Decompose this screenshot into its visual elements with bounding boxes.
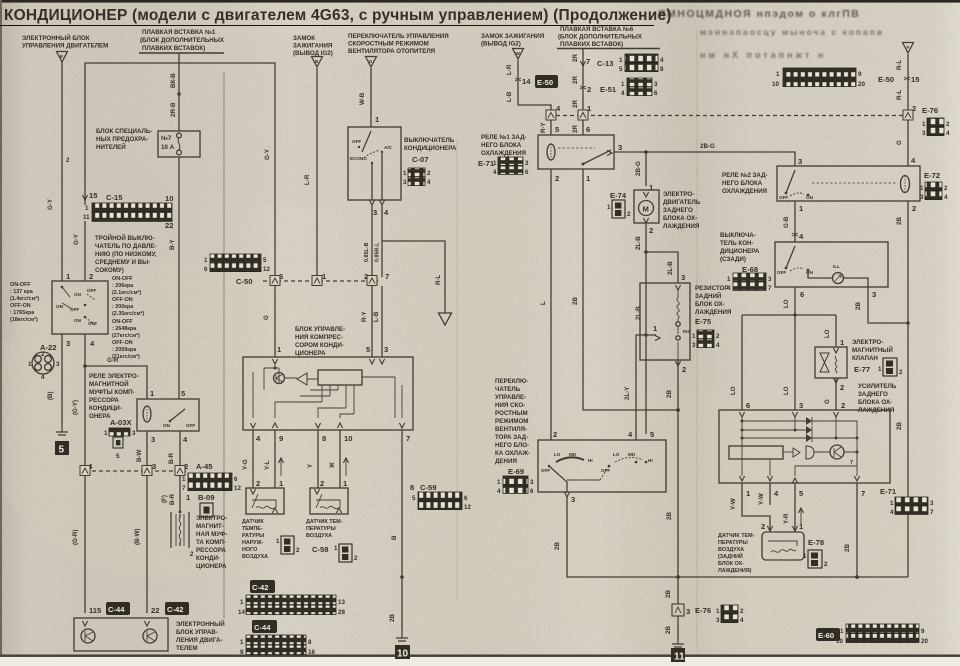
svg-text:10: 10 — [344, 434, 352, 443]
svg-text:2В: 2В — [855, 302, 862, 310]
dashed harness line through pins 4 3 2 — [80, 462, 188, 476]
svg-text:3: 3 — [654, 81, 658, 88]
label: ПЛАВКАЯ ВСТАВКА №1 — [139, 29, 225, 53]
svg-text:ТЕЛЕМ: ТЕЛЕМ — [176, 645, 198, 652]
svg-text:УПРАВЛЕНИЯ ДВИГАТЕЛЕМ: УПРАВЛЕНИЯ ДВИГАТЕЛЕМ — [22, 43, 108, 50]
svg-text:КОНДИЦИ-: КОНДИЦИ- — [89, 405, 122, 412]
svg-text:OFF: OFF — [541, 468, 550, 473]
svg-text:R-L: R-L — [896, 59, 903, 70]
wire B-R (F) below dashed to clutch — [161, 476, 180, 512]
svg-text:НИТЕЛЕЙ: НИТЕЛЕЙ — [96, 143, 126, 151]
svg-text:мэннэпаосцу мыноча с копапв: мэннэпаосцу мыноча с копапв — [700, 27, 884, 37]
svg-text:8: 8 — [322, 434, 326, 443]
svg-text:OFF-ON: OFF-ON — [112, 297, 133, 303]
wire L-R from triangle B to dashed junction pin 1 — [304, 68, 317, 277]
svg-text:ЗАМОК: ЗАМОК — [293, 35, 315, 42]
svg-text:(27кгс/см²): (27кгс/см²) — [112, 333, 140, 339]
svg-text:9: 9 — [921, 628, 925, 635]
pins 6 3 2 above amplifier — [746, 401, 845, 410]
svg-text:ПЕРЕКЛЮЧАТЕЛЬ УПРАВЛЕНИЯ: ПЕРЕКЛЮЧАТЕЛЬ УПРАВЛЕНИЯ — [348, 33, 449, 40]
svg-text:ON: ON — [74, 318, 82, 323]
svg-text:3: 3 — [384, 345, 388, 354]
svg-text:1: 1 — [692, 333, 696, 340]
svg-text:ЛАЖДЕНИЯ): ЛАЖДЕНИЯ) — [718, 568, 752, 574]
wire G-Y below C-15 to pressure switch pin 2 — [73, 221, 85, 281]
svg-text:3: 3 — [152, 462, 156, 471]
svg-text:4: 4 — [497, 488, 501, 495]
svg-text:2: 2 — [587, 85, 591, 94]
svg-text:3: 3 — [768, 276, 772, 283]
wire R-Y from dashed to relay 1 pin 5 — [540, 120, 560, 135]
svg-text:НИЮ (ПО НИЗКОМУ,: НИЮ (ПО НИЗКОМУ, — [95, 251, 157, 258]
label: ДАТЧИК ТЕМПЕРАТУРЫ ВОЗДУХА (ЗАДНИЙ БЛОК ОХЛАЖДЕНИЯ) — [718, 533, 755, 574]
wires from amp pins 1 4 5 to rear air temp sensor E-78 — [730, 483, 804, 532]
connector E-76 top right — [922, 106, 950, 137]
svg-text:OFF: OFF — [87, 288, 96, 293]
svg-text:СОКОМУ): СОКОМУ) — [95, 267, 124, 274]
svg-text:2В: 2В — [896, 422, 903, 430]
solenoid valve E-77 box — [815, 347, 847, 392]
svg-text:LO: LO — [824, 329, 831, 338]
svg-text:7: 7 — [406, 434, 410, 443]
wire L-B to control box pin 3 — [373, 286, 388, 357]
svg-text:ВОЗДУХА: ВОЗДУХА — [242, 554, 268, 560]
svg-text:10: 10 — [397, 649, 409, 660]
svg-text:2: 2 — [946, 121, 950, 128]
svg-text:2L-В: 2L-В — [635, 306, 642, 320]
svg-text:7: 7 — [385, 272, 389, 281]
svg-text:12: 12 — [464, 504, 471, 511]
wire 2B ground drop at x678 — [665, 577, 690, 663]
svg-text:1: 1 — [840, 628, 844, 635]
svg-text:1: 1 — [922, 121, 926, 128]
svg-text:LO: LO — [613, 452, 620, 457]
svg-text:2: 2 — [296, 547, 300, 554]
wire B-W from relay pin 3 down — [136, 431, 147, 466]
air temp sensor box — [310, 488, 348, 514]
label: УСИЛИТЕЛЬ ЗАДНЕГО БЛОКА ОХЛАЖДЕНИЯ — [858, 383, 897, 414]
wire R-Y to control box pin 5 — [361, 286, 372, 357]
svg-text:22: 22 — [165, 221, 173, 230]
wire (G-R) from dashed down to ECU pin 115 — [72, 476, 85, 613]
switch C-07 box — [348, 127, 401, 200]
label: ЭЛЕКТРОННЫЙ БЛОК УПРАВЛЕНИЯ ДВИГАТЕЛЕМ (top) — [22, 34, 108, 50]
svg-text:2R: 2R — [572, 100, 579, 108]
svg-text:3: 3 — [56, 361, 60, 368]
fuse No7 10A box — [158, 131, 200, 157]
svg-text:1: 1 — [240, 599, 244, 606]
svg-text:В: В — [391, 535, 398, 540]
svg-text:3: 3 — [530, 479, 534, 486]
svg-text:(БЛОК ДОПОЛНИТЕЛЬНЫХ: (БЛОК ДОПОЛНИТЕЛЬНЫХ — [140, 37, 225, 44]
svg-text:В-R: В-R — [169, 493, 176, 505]
svg-text:: 1765кра: : 1765кра — [10, 310, 35, 316]
svg-text:2: 2 — [899, 369, 903, 376]
A/C compressor control unit box — [243, 357, 413, 430]
svg-text:1: 1 — [182, 476, 186, 483]
wire W-B from triangle D to switch C-07 — [359, 68, 380, 127]
svg-text:ПЕРАТУРЫ: ПЕРАТУРЫ — [306, 526, 336, 532]
svg-text:Y-R: Y-R — [783, 513, 790, 524]
svg-text:C-50: C-50 — [236, 277, 252, 286]
svg-text:14: 14 — [522, 77, 531, 86]
svg-text:3: 3 — [66, 339, 70, 348]
svg-text:1: 1 — [607, 204, 611, 211]
svg-text:2: 2 — [555, 174, 559, 183]
svg-text:2: 2 — [354, 555, 358, 562]
svg-text:22: 22 — [151, 606, 159, 615]
svg-text:2: 2 — [66, 157, 70, 164]
svg-text:E-72: E-72 — [924, 171, 940, 180]
svg-text:ПЕРЕКЛЮ-: ПЕРЕКЛЮ- — [495, 378, 528, 385]
ground ref box 5 — [55, 441, 69, 456]
svg-text:3: 3 — [525, 160, 529, 167]
svg-text:1: 1 — [920, 185, 924, 192]
svg-text:G-Y: G-Y — [47, 198, 54, 210]
connector triangle B — [312, 57, 323, 68]
label: ТРОЙНОЙ ВЫКЛЮЧАТЕЛЬ ПО ДАВЛЕНИЮ — [95, 234, 157, 274]
svg-text:КОНДИЦИОНЕР (модели с двигател: КОНДИЦИОНЕР (модели с двигателем 4G63, с… — [4, 7, 672, 24]
relay No2 E-72 box — [777, 166, 920, 201]
triple pressure switch box — [52, 272, 108, 334]
svg-text:1: 1 — [240, 639, 244, 646]
svg-text:2: 2 — [840, 383, 844, 392]
svg-text:7: 7 — [768, 285, 772, 292]
svg-text:ЗАДНЕГО: ЗАДНЕГО — [663, 207, 693, 214]
svg-text:C-58: C-58 — [312, 545, 328, 554]
svg-text:L-В: L-В — [506, 91, 513, 102]
label: ВЫКЛЮЧАТЕЛЬ КОНДИЦИОНЕРА (СЗАДИ) E-68 — [720, 232, 760, 274]
svg-text:7: 7 — [930, 509, 934, 516]
svg-text:5: 5 — [619, 66, 623, 73]
svg-text:E-50: E-50 — [878, 75, 894, 84]
svg-text:ДВИГАТЕЛЬ: ДВИГАТЕЛЬ — [663, 199, 701, 206]
svg-text:ЗАЖИГАНИЯ: ЗАЖИГАНИЯ — [293, 43, 333, 50]
wire 2B from amp pin7 to ground rail — [844, 483, 859, 579]
svg-text:L-R: L-R — [304, 174, 311, 185]
pins 1 and 2 below relay E-72 — [799, 204, 916, 213]
svg-text:ДАТЧИК ТЕМ-: ДАТЧИК ТЕМ- — [306, 519, 343, 525]
svg-text:БЛОК ОХ-: БЛОК ОХ- — [718, 561, 744, 567]
svg-text:5: 5 — [59, 445, 65, 456]
svg-text:: 2648кра: : 2648кра — [112, 326, 137, 332]
svg-text:СОРОМ КОНДИ-: СОРОМ КОНДИ- — [295, 342, 344, 349]
svg-text:15: 15 — [911, 75, 920, 84]
svg-text:ПЛАВКИХ ВСТАВОК): ПЛАВКИХ ВСТАВОК) — [142, 45, 205, 52]
svg-text:2: 2 — [256, 479, 260, 488]
svg-text:1: 1 — [493, 160, 497, 167]
svg-text:R-Y: R-Y — [540, 121, 547, 133]
pins 2 1 below relay 1 — [555, 174, 591, 183]
svg-text:ЛЕНИЯ ДВИГА-: ЛЕНИЯ ДВИГА- — [176, 637, 223, 644]
svg-text:LO: LO — [730, 386, 737, 395]
svg-text:C-42: C-42 — [167, 605, 183, 614]
wire L from relay1 pin2 down to switch E-69 pin 2 — [540, 169, 557, 440]
svg-text:E-74: E-74 — [610, 191, 627, 200]
connector E-60 ref tab bottom right — [816, 628, 840, 641]
svg-text:ON: ON — [56, 304, 64, 309]
svg-text:2: 2 — [41, 351, 45, 358]
connector E-75 block — [692, 330, 720, 349]
svg-text:3: 3 — [686, 607, 690, 616]
pins 3 4 below C-07 — [369, 200, 389, 217]
svg-text:Y-W: Y-W — [730, 498, 737, 510]
wire Y to air temp sensor — [307, 430, 324, 488]
paper crease line — [223, 72, 225, 618]
svg-text:СРЕДНЕМУ И ВЫ-: СРЕДНЕМУ И ВЫ- — [95, 259, 150, 266]
pin 2 below resistor — [666, 360, 686, 577]
wire R-L from triangle F down — [896, 54, 908, 111]
svg-text:E-71: E-71 — [880, 487, 897, 496]
svg-text:ДАТЧИК: ДАТЧИК — [242, 519, 264, 525]
svg-text:3: 3 — [151, 435, 155, 444]
svg-text:2: 2 — [320, 479, 324, 488]
svg-text:2В: 2В — [896, 217, 903, 225]
wire BK-B from fusible link bus down to fuse box — [170, 53, 181, 131]
svg-text:ПЛАВКИХ ВСТАВОК): ПЛАВКИХ ВСТАВОК) — [560, 41, 623, 48]
connector E-76 bottom — [695, 605, 744, 624]
svg-text:1: 1 — [776, 71, 780, 78]
svg-text:6: 6 — [800, 290, 804, 299]
svg-text:(2.35кгс/см²): (2.35кгс/см²) — [112, 311, 144, 317]
wire 2R from dashed to relay 1 pin 6 — [572, 120, 590, 135]
label: ВЫКЛЮЧАТЕЛЬ КОНДИЦИОНЕРА C-07 — [403, 137, 457, 186]
svg-text:9: 9 — [240, 649, 244, 656]
svg-text:1: 1 — [403, 170, 407, 177]
pressure values text middle — [112, 276, 144, 360]
svg-text:ОХЛАЖДЕНИЯ: ОХЛАЖДЕНИЯ — [481, 150, 527, 157]
connector E-77 — [878, 358, 903, 376]
svg-text:6: 6 — [746, 401, 750, 410]
svg-text:8: 8 — [410, 483, 414, 492]
svg-text:ЭЛЕКТРО-: ЭЛЕКТРО- — [196, 515, 227, 522]
svg-text:НИЯ КОМПРЕС-: НИЯ КОМПРЕС- — [295, 334, 343, 341]
wire G-B from relay2 pin1 to rear AC switch — [783, 201, 804, 242]
label: РЕЗИСТОР ЗАДНЕГО БЛОКА ОХЛАЖДЕНИЯ E-75 — [695, 285, 732, 326]
svg-text:ДЕНИЯ: ДЕНИЯ — [495, 458, 517, 465]
svg-text:ОНЕРА: ОНЕРА — [89, 413, 111, 420]
svg-text:(18кгс/см²): (18кгс/см²) — [10, 317, 38, 323]
svg-text:9: 9 — [279, 434, 283, 443]
svg-text:ILL: ILL — [833, 264, 840, 269]
svg-text:1: 1 — [716, 608, 720, 615]
svg-text:6: 6 — [234, 476, 238, 483]
wire from E-68 pin3 down and right to 2B column — [855, 287, 908, 323]
label: ДАТЧИК ТЕМПЕРАТУРЫ ВОЗДУХА — [306, 519, 343, 539]
svg-text:4: 4 — [493, 169, 497, 176]
wire G from dashed to control box pin 1 — [263, 286, 282, 357]
svg-text:МАГНИТНОЙ: МАГНИТНОЙ — [89, 380, 129, 388]
label: ПЕРЕКЛЮЧАТЕЛЬ УПРАВЛЕНИЯ СКОРОСТНЫМ РЕЖИМОМ ВЕНТИЛЯТОРА ОТОПИТЕЛЯ — [348, 33, 449, 55]
ground symbol for wire B — [396, 630, 408, 641]
svg-text:LO: LO — [783, 386, 790, 395]
svg-text:БЛОК УПРАВЛЕ-: БЛОК УПРАВЛЕ- — [295, 326, 345, 333]
svg-text:(ЗАДНИЙ: (ЗАДНИЙ — [718, 552, 743, 560]
svg-text:E-60: E-60 — [818, 631, 834, 640]
rear cooling motor E-74 — [634, 190, 659, 235]
svg-text:УСИЛИТЕЛЬ: УСИЛИТЕЛЬ — [858, 383, 897, 390]
svg-text:Y-W: Y-W — [758, 493, 765, 505]
svg-text:L: L — [540, 301, 547, 305]
svg-text:4: 4 — [660, 57, 664, 64]
svg-text:2В: 2В — [665, 590, 672, 598]
svg-text:C-15: C-15 — [106, 193, 123, 202]
svg-text:(В-W): (В-W) — [134, 529, 141, 546]
svg-text:ВЕНТИЛЯТОРА ОТОПИТЕЛЯ: ВЕНТИЛЯТОРА ОТОПИТЕЛЯ — [348, 48, 436, 55]
label: ПЕРЕКЛЮЧАТЕЛЬ УПРАВЛЕНИЯ СКОРОСТНЫМ РЕЖИМОМ ВЕНТИЛЯТОРА ЗАДНЕГО БЛОКА ОХЛАЖДЕНИЯ — [495, 378, 530, 476]
svg-text:2В: 2В — [666, 390, 673, 398]
svg-text:2В: 2В — [572, 297, 579, 305]
label: ЗАМОК ЗАЖИГАНИЯ (ВЫВОД IG2) left — [293, 35, 333, 57]
connector for outside air sensor — [276, 536, 300, 554]
wire 2B from relay2 pin2 down right column — [896, 201, 910, 577]
svg-text:C-13: C-13 — [597, 59, 613, 68]
svg-text:1: 1 — [890, 500, 894, 507]
svg-text:115: 115 — [89, 606, 102, 615]
connector C-42 ref tab — [250, 580, 275, 593]
svg-text:КОНДИ-: КОНДИ- — [196, 555, 220, 562]
connector E-71 block right — [890, 497, 934, 516]
svg-text:4: 4 — [716, 342, 720, 349]
svg-text:3: 3 — [716, 617, 720, 624]
label: ДАТЧИК ТЕМПЕРАТУРЫ НАРУЖНОГО ВОЗДУХА — [242, 519, 268, 560]
connector C-50 block — [204, 254, 270, 286]
svg-text:нм нХ потапнжт н: нм нХ потапнжт н — [700, 50, 826, 60]
svg-text:МУФТЫ КОМП-: МУФТЫ КОМП- — [89, 389, 135, 396]
svg-text:7: 7 — [182, 485, 186, 492]
svg-text:3: 3 — [930, 500, 934, 507]
connector E-71 block left — [478, 157, 529, 176]
svg-text:БЛОК УПРАВ-: БЛОК УПРАВ- — [176, 629, 218, 636]
wire (B-W) from A-45 pin3 down to ECU pin 22 — [134, 476, 147, 613]
svg-text:БЛОКА ОХ-: БЛОКА ОХ- — [663, 215, 697, 222]
wire (G-Y) from pressure switch pin 4 down — [72, 334, 85, 466]
wire LO from E-68 pin6 down to distribution — [783, 287, 795, 315]
svg-text:5: 5 — [116, 453, 120, 460]
svg-text:L-В: L-В — [373, 311, 380, 322]
svg-text:ТОРА ЗАД-: ТОРА ЗАД- — [495, 434, 528, 441]
svg-text:E-69: E-69 — [508, 467, 524, 476]
svg-text:ON-OFF: ON-OFF — [112, 319, 133, 325]
rear A/C switch E-68 box — [775, 242, 888, 287]
svg-text:2L-Y: 2L-Y — [624, 386, 631, 400]
svg-text:20: 20 — [921, 638, 928, 645]
wire L-R from ignition to E-50 — [506, 60, 551, 112]
svg-text:ЯМНОЦМДНОЯ нпэдом о клгПВ: ЯМНОЦМДНОЯ нпэдом о клгПВ — [658, 8, 860, 20]
svg-text:ТЕЛЬ КОН-: ТЕЛЬ КОН- — [720, 240, 754, 247]
svg-text:2R-В: 2R-В — [170, 102, 177, 117]
svg-text:НЕГО БЛО-: НЕГО БЛО- — [495, 442, 529, 449]
svg-text:НЫХ ПРЕДОХРА-: НЫХ ПРЕДОХРА- — [96, 136, 148, 143]
svg-text:2: 2 — [427, 170, 431, 177]
svg-text:ТРОЙНОЙ ВЫКЛЮ-: ТРОЙНОЙ ВЫКЛЮ- — [95, 234, 155, 242]
svg-text:2R: 2R — [572, 54, 579, 62]
svg-text:1: 1 — [803, 553, 807, 560]
connector E-78 — [803, 538, 828, 568]
svg-text:2: 2 — [89, 272, 93, 281]
svg-text:R-L: R-L — [435, 274, 442, 285]
wire G-R branch to relay pin 1 — [83, 357, 147, 399]
svg-text:КОНДИЦИОНЕРА: КОНДИЦИОНЕРА — [404, 145, 457, 152]
wire 0.85L-B from C-07 pin3 — [364, 205, 372, 277]
svg-text:СКОРОСТНЫМ РЕЖИМОМ: СКОРОСТНЫМ РЕЖИМОМ — [348, 41, 429, 48]
svg-text:E-51: E-51 — [600, 85, 617, 94]
svg-text:15: 15 — [89, 191, 98, 200]
svg-text:М: М — [643, 205, 649, 214]
svg-text:MD: MD — [628, 452, 636, 457]
label: ЗАМОК ЗАЖИГАНИЯ (ВЫВОД IG2) right — [481, 33, 545, 48]
svg-text:4: 4 — [944, 194, 948, 201]
svg-text:9: 9 — [858, 71, 862, 78]
svg-text:№7: №7 — [161, 135, 172, 142]
svg-text:4: 4 — [41, 374, 45, 381]
svg-text:В-W: В-W — [136, 449, 143, 462]
svg-text:1: 1 — [104, 430, 108, 437]
svg-text:OFF-ON: OFF-ON — [112, 340, 133, 346]
svg-text:E: E — [60, 54, 63, 59]
svg-text:0.85R-L: 0.85R-L — [375, 242, 381, 262]
svg-text:3: 3 — [571, 495, 575, 504]
svg-text:2R: 2R — [572, 125, 579, 133]
svg-text:4: 4 — [740, 617, 744, 624]
svg-text:НОГО: НОГО — [242, 547, 257, 553]
svg-text:2В-G: 2В-G — [700, 143, 715, 150]
svg-text:A-45: A-45 — [196, 462, 213, 471]
wire Y-G to outside air temp sensor — [242, 430, 260, 488]
svg-text:6: 6 — [654, 90, 658, 97]
connector E-74 — [607, 191, 631, 218]
svg-text:Y-G: Y-G — [242, 459, 249, 470]
label: ЭЛЕКТРОМАГНИТНАЯ МУФТА КОМПРЕССОРА КОНДИЦИОНЕРА — [196, 515, 227, 570]
svg-text:11: 11 — [83, 214, 90, 221]
svg-text:G-Y: G-Y — [264, 148, 271, 160]
svg-text:ДАТЧИК ТЕМ-: ДАТЧИК ТЕМ- — [718, 533, 755, 539]
wire G from E-76 down to relay E-72 pin 4 — [896, 120, 916, 166]
svg-text:1: 1 — [334, 545, 338, 552]
connector C-44 ref tab — [252, 620, 277, 633]
label: РЕЛЕ №1 ЗАДНЕГО БЛОКА ОХЛАЖДЕНИЯ — [481, 134, 527, 157]
svg-text:4: 4 — [621, 90, 625, 97]
svg-text:1: 1 — [619, 57, 623, 64]
svg-text:ON-OFF: ON-OFF — [112, 276, 133, 282]
svg-text:OFF: OFF — [70, 307, 79, 312]
svg-text:16: 16 — [308, 649, 315, 656]
svg-text:C-44: C-44 — [108, 605, 125, 614]
svg-text:C-44: C-44 — [254, 623, 271, 632]
svg-text:2: 2 — [649, 226, 653, 235]
connector E-50 ref tab — [535, 75, 558, 88]
pins 1 4 5 7 below amplifier — [746, 487, 897, 498]
dashed harness line with pins 6 1 2 7 — [263, 272, 389, 286]
wire 2L-B from motor down with branch to resistor — [624, 223, 685, 440]
svg-text:OFF: OFF — [777, 270, 786, 275]
svg-text:2: 2 — [716, 333, 720, 340]
svg-text:ЛАЖДЕНИЯ: ЛАЖДЕНИЯ — [663, 223, 700, 230]
svg-text:A/C: A/C — [384, 145, 393, 150]
svg-text:14: 14 — [238, 609, 245, 616]
rear cooling amplifier box — [719, 410, 890, 483]
svg-text:10: 10 — [772, 81, 779, 88]
svg-text:(БЛОК ДОПОЛНИТЕЛЬНЫХ: (БЛОК ДОПОЛНИТЕЛЬНЫХ — [558, 34, 643, 41]
svg-text:(2.1кгс/см²): (2.1кгс/см²) — [112, 290, 141, 296]
svg-text:В-Y: В-Y — [169, 238, 176, 250]
svg-text:12: 12 — [234, 485, 241, 492]
svg-text:Y-L: Y-L — [264, 460, 271, 470]
svg-text:3: 3 — [798, 157, 802, 166]
svg-text:УПРАВЛЕ-: УПРАВЛЕ- — [495, 394, 526, 401]
connector A-22 round — [28, 343, 60, 381]
svg-text:6: 6 — [525, 169, 529, 176]
